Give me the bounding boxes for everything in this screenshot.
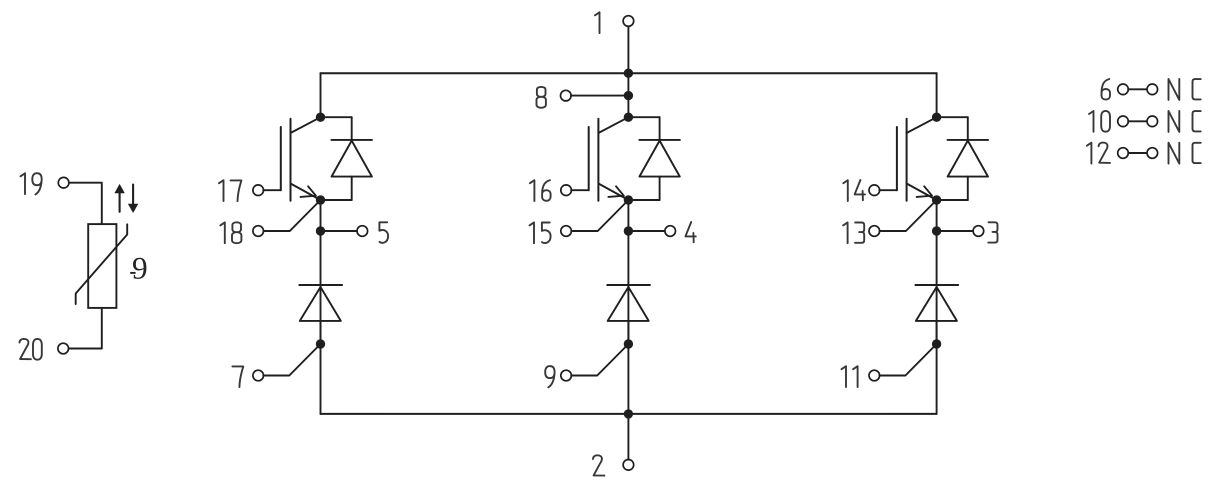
node output junction Q1 bbox=[316, 226, 325, 235]
pin 5 label bbox=[379, 222, 388, 243]
terminal pin 7 (lower) bbox=[253, 370, 264, 381]
diode D3 cathode bar bbox=[948, 139, 989, 141]
pin 14 label bbox=[843, 180, 848, 201]
terminal pin 12 (NC left) bbox=[1118, 148, 1129, 159]
node pin8 junction bbox=[624, 91, 633, 100]
diode D2 branch bottom bbox=[628, 199, 659, 201]
thermistor R1 body bbox=[88, 224, 116, 308]
diode D1 (antiparallel) branch top bbox=[321, 116, 352, 118]
wire top bus to pin8 node bbox=[627, 73, 629, 95]
pin 9 label bbox=[545, 366, 554, 387]
terminal pin 6 (NC left) bbox=[1118, 84, 1129, 95]
wire pin8 to leg bbox=[571, 95, 628, 97]
terminal pin 16 (gate Q2) bbox=[561, 185, 572, 196]
transistor Q2 emitter arrow bbox=[608, 186, 623, 197]
node anode junction Q2 bbox=[624, 339, 633, 348]
wire aux emitter Q1 bbox=[263, 200, 320, 231]
wire aux emitter Q3 bbox=[880, 200, 937, 231]
wire thermistor to pin20 bbox=[68, 308, 101, 349]
terminal pin 19 bbox=[58, 177, 69, 188]
pin 20 label bbox=[20, 339, 31, 359]
terminal pin 6 (NC right) bbox=[1147, 84, 1158, 95]
diode D3 branch bottom bbox=[937, 199, 968, 201]
wire output node to pin 3 bbox=[937, 230, 974, 232]
wire emitter to output node Q1 bbox=[320, 200, 322, 231]
pin 12 label bbox=[1087, 143, 1092, 164]
wire pin8 node to collector bbox=[627, 96, 629, 118]
wire bottom bus (node 2 rail) bbox=[321, 413, 937, 415]
transistor Q2 collector lead bbox=[598, 117, 628, 133]
wire lower diode to anode node bbox=[320, 321, 322, 344]
wire anode node to bottom bus bbox=[627, 344, 629, 414]
pin 16 label bbox=[530, 180, 535, 201]
wire pin1 to top bus bbox=[627, 26, 629, 73]
diode D2 branch right upper bbox=[659, 117, 661, 140]
wire output node to lower diode bbox=[320, 231, 322, 344]
transistor Q1 body bar bbox=[290, 119, 292, 201]
wire output node to pin 5 bbox=[321, 230, 358, 232]
terminal pin 11 (lower) bbox=[869, 370, 880, 381]
diode D1 triangle bbox=[332, 141, 372, 177]
terminal pin 10 (NC right) bbox=[1147, 116, 1158, 127]
diode D1 branch right upper bbox=[351, 117, 353, 140]
transistor Q3 body bar bbox=[906, 119, 908, 201]
terminal pin 3 (phase output) bbox=[973, 226, 984, 237]
transistor Q1 emitter arrow bbox=[301, 186, 316, 197]
node emitter Q3 bbox=[932, 195, 941, 204]
node bottom-bus junction bbox=[624, 409, 633, 418]
diode D3 branch right upper bbox=[967, 117, 969, 140]
terminal pin 1 bbox=[623, 16, 634, 27]
pin 18 label bbox=[220, 222, 225, 243]
wire pin 7 to anode node bbox=[263, 344, 320, 376]
diode D1 cathode bar bbox=[331, 139, 372, 141]
pin 10 label bbox=[1089, 111, 1094, 132]
node output junction Q2 bbox=[624, 226, 633, 235]
wire gate Q1 bbox=[263, 189, 281, 191]
transistor Q1 gate bar bbox=[280, 127, 282, 190]
node collector Q3 bbox=[932, 113, 941, 122]
wire top bus corner to collector (Q1) bbox=[320, 73, 322, 117]
terminal pin 10 (NC left) bbox=[1118, 116, 1129, 127]
wire NC pin 6 bbox=[1128, 88, 1147, 90]
terminal pin 4 (phase output) bbox=[665, 226, 676, 237]
pin 17 label bbox=[219, 180, 224, 201]
thermistor arrow up bbox=[119, 192, 121, 212]
node collector Q1 bbox=[316, 113, 325, 122]
node emitter Q1 bbox=[316, 195, 325, 204]
diode D1 branch bottom bbox=[321, 199, 352, 201]
wire lower diode to anode node bbox=[627, 321, 629, 344]
transistor Q3 emitter arrow bbox=[917, 186, 932, 197]
pin 6 label bbox=[1101, 79, 1110, 100]
pin 11 label bbox=[842, 366, 847, 387]
transistor Q2 body bar bbox=[597, 119, 599, 201]
terminal pin 17 (gate Q1) bbox=[253, 185, 264, 196]
wire output node to pin 4 bbox=[628, 230, 665, 232]
thermistor arrow down bbox=[132, 185, 134, 206]
wire emitter to output node Q3 bbox=[936, 200, 938, 231]
diode D1 branch right lower bbox=[351, 177, 353, 200]
diode D6 triangle bbox=[916, 287, 957, 321]
terminal pin 13 (aux emitter Q3) bbox=[869, 226, 880, 237]
wire aux emitter Q2 bbox=[571, 200, 628, 231]
wire top bus corner to collector (Q3) bbox=[936, 73, 938, 117]
diode D4 triangle bbox=[300, 287, 341, 321]
pin 19 label bbox=[21, 173, 26, 194]
NC label for pin 12 bbox=[1169, 143, 1180, 164]
wire gate Q2 bbox=[571, 189, 589, 191]
wire output node to lower diode bbox=[936, 231, 938, 344]
diode D2 (antiparallel) branch top bbox=[628, 116, 659, 118]
wire anode node to bottom bus bbox=[320, 344, 322, 414]
node output junction Q3 bbox=[932, 226, 941, 235]
diode D2 triangle bbox=[639, 141, 679, 177]
wire top bus (node 1 rail) bbox=[321, 72, 937, 74]
transistor Q2 gate bar bbox=[588, 127, 590, 190]
pin 7 label bbox=[232, 366, 243, 387]
diode D6 cathode bar bbox=[915, 284, 958, 286]
node emitter Q2 bbox=[624, 195, 633, 204]
node top-bus junction bbox=[624, 69, 633, 78]
wire pin 9 to anode node bbox=[571, 344, 628, 376]
thermistor R1 diagonal bbox=[76, 224, 128, 304]
terminal pin 14 (gate Q3) bbox=[869, 185, 880, 196]
diode D2 cathode bar bbox=[639, 139, 680, 141]
diode D5 cathode bar bbox=[607, 284, 650, 286]
thermistor theta label bbox=[133, 258, 146, 279]
diode D2 branch right lower bbox=[659, 177, 661, 200]
wire pin19 to thermistor bbox=[69, 183, 102, 224]
NC label for pin 10 bbox=[1169, 111, 1180, 132]
pin 15 label bbox=[530, 222, 535, 243]
diode D3 branch right lower bbox=[967, 177, 969, 200]
terminal pin 9 (lower) bbox=[561, 370, 572, 381]
wire lower diode to anode node bbox=[936, 321, 938, 344]
terminal pin 15 (aux emitter Q2) bbox=[561, 226, 572, 237]
transistor Q3 emitter lead bbox=[907, 184, 937, 201]
node anode junction Q3 bbox=[932, 339, 941, 348]
pin 13 label bbox=[843, 222, 848, 243]
diode D3 (antiparallel) branch top bbox=[937, 116, 968, 118]
wire output node to lower diode bbox=[627, 231, 629, 344]
diode D3 triangle bbox=[948, 141, 988, 177]
transistor Q1 collector lead bbox=[291, 117, 321, 133]
wire pin 11 to anode node bbox=[879, 344, 936, 376]
terminal pin 5 (phase output) bbox=[357, 226, 368, 237]
pin 2 label bbox=[593, 455, 604, 475]
pin 3 label bbox=[988, 222, 997, 242]
transistor Q3 gate bar bbox=[896, 127, 898, 190]
wire gate Q3 bbox=[879, 189, 897, 191]
NC label for pin 6 bbox=[1169, 79, 1180, 100]
pin 4 label bbox=[686, 222, 696, 242]
terminal pin 12 (NC right) bbox=[1147, 148, 1158, 159]
transistor Q3 collector lead bbox=[907, 117, 937, 133]
terminal pin 2 bbox=[623, 460, 634, 471]
transistor Q1 emitter lead bbox=[291, 184, 321, 201]
wire emitter to output node Q2 bbox=[627, 200, 629, 231]
diode D5 triangle bbox=[608, 287, 649, 321]
terminal pin 8 bbox=[561, 90, 572, 101]
terminal pin 20 bbox=[58, 343, 69, 354]
wire anode node to bottom bus bbox=[936, 344, 938, 414]
transistor Q2 emitter lead bbox=[598, 184, 628, 201]
node anode junction Q1 bbox=[316, 339, 325, 348]
wire pin2 to bottom bus bbox=[627, 414, 629, 460]
wire NC pin 10 bbox=[1128, 120, 1147, 122]
pin 8 label bbox=[537, 87, 546, 108]
terminal pin 18 (aux emitter Q1) bbox=[253, 226, 264, 237]
wire NC pin 12 bbox=[1128, 152, 1147, 154]
node collector Q2 bbox=[624, 113, 633, 122]
diode D4 cathode bar bbox=[299, 284, 342, 286]
pin 1 label bbox=[595, 12, 600, 33]
